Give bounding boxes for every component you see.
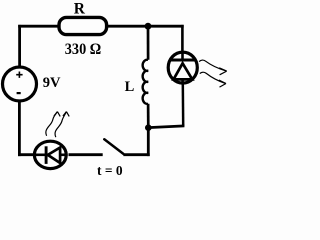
light arrows from LED D2	[199, 60, 227, 87]
LED D1 (bottom left)	[34, 141, 67, 168]
wire: node B to LED D2 branch (horizontal)	[148, 126, 184, 128]
wire: top-right corner down to LED D2	[181, 25, 184, 53]
svg-text:t = 0: t = 0	[97, 164, 123, 179]
svg-text:330 Ω: 330 Ω	[65, 41, 102, 58]
label R	[74, 1, 86, 18]
node B junction dot	[145, 124, 152, 131]
resistor R 330 ohm	[59, 17, 107, 34]
label 330 Ω	[65, 41, 102, 58]
label L	[125, 79, 135, 95]
wire: LED D1 to bottom-left corner	[18, 153, 35, 156]
wire: node B down to bottom rail	[147, 128, 150, 156]
wire: inductor to node B	[147, 104, 150, 128]
svg-text:L: L	[125, 79, 135, 95]
inductor L coil	[143, 60, 148, 104]
LED D2 (right)	[168, 52, 197, 84]
wire: top-left horizontal from corner to resistor	[18, 25, 60, 28]
wire: left vertical from top-left corner down to battery + terminal	[18, 25, 21, 68]
label 9V	[43, 75, 61, 91]
wire: node A down to inductor	[147, 26, 150, 60]
node A junction dot	[145, 23, 152, 30]
wire: left vertical from bottom corner up to battery - terminal	[18, 100, 21, 156]
wire: resistor to top-right corner (through node A)	[105, 25, 184, 28]
svg-text:R: R	[74, 1, 86, 18]
switch S1 (open, closes at t=0)	[104, 139, 123, 154]
wire: LED D2 cathode down	[182, 83, 185, 126]
minus sign	[17, 92, 21, 94]
light arrows from LED D1	[46, 112, 69, 138]
label t = 0	[97, 164, 123, 179]
wire: bottom rail right segment (switch to corner stub)	[123, 153, 149, 156]
voltage source V1 9V	[3, 67, 37, 101]
svg-text:9V: 9V	[43, 75, 61, 91]
wire: bottom rail between LED D1 and switch	[69, 153, 103, 156]
plus sign	[16, 72, 22, 78]
